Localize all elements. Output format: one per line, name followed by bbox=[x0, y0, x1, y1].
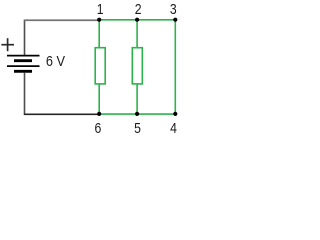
wire bottom rail green (node 6 to node 4) bbox=[99, 113, 175, 115]
node 2 junction dot bbox=[135, 18, 139, 22]
battery B1 plate short thick (bottom, -) bbox=[14, 70, 32, 73]
wire branch 1 upper bbox=[98, 20, 100, 48]
battery B1 plate long (second cell, +) bbox=[7, 65, 40, 67]
svg-text:6: 6 bbox=[95, 120, 102, 137]
node 4 junction dot bbox=[173, 112, 177, 116]
battery plus polarity mark bbox=[1, 38, 14, 51]
node 6 junction dot bbox=[97, 112, 101, 116]
svg-text:3: 3 bbox=[170, 1, 177, 18]
resistor R2 bbox=[132, 48, 142, 84]
node 5 junction dot bbox=[135, 112, 139, 116]
battery B1 plate short thick bbox=[14, 59, 32, 62]
svg-text:2: 2 bbox=[135, 1, 142, 18]
node 3 junction dot bbox=[173, 18, 177, 22]
wire branch 2 upper bbox=[136, 20, 138, 48]
wire battery top vertical bbox=[24, 20, 26, 55]
wire top rail green (node 1 to node 3) bbox=[99, 19, 175, 21]
svg-text:6 V: 6 V bbox=[46, 53, 65, 70]
battery B1 plate long (top, +) bbox=[7, 55, 40, 57]
node 1 junction dot bbox=[97, 18, 101, 22]
svg-text:5: 5 bbox=[134, 120, 141, 137]
resistor R1 bbox=[95, 48, 105, 84]
wire battery bottom vertical bbox=[24, 73, 26, 115]
svg-text:4: 4 bbox=[170, 120, 177, 137]
wire branch 1 lower bbox=[98, 84, 100, 114]
wire branch 3 right side (node 3 to node 4) bbox=[174, 20, 176, 114]
wire bottom-left (battery - to node 6) bbox=[24, 113, 99, 115]
svg-text:1: 1 bbox=[97, 1, 104, 18]
wire branch 2 lower bbox=[136, 84, 138, 114]
wire top-left horizontal (battery + to node 1) bbox=[24, 19, 99, 21]
